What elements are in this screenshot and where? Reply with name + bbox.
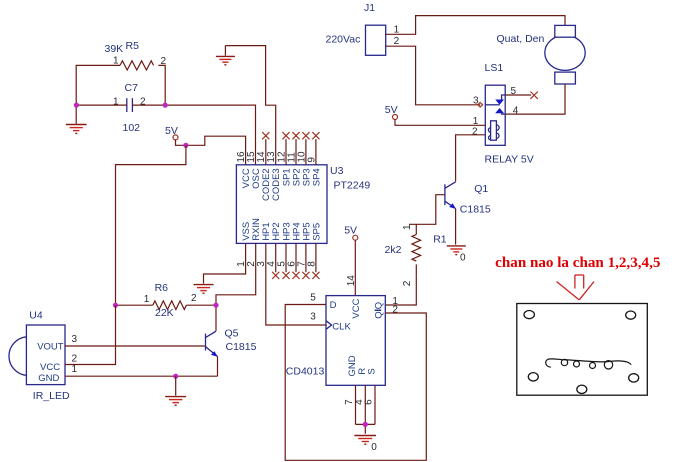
wire Q1 emitter to ground: [455, 209, 457, 245]
svg-text:1: 1: [72, 364, 78, 375]
node relay pin3 open diamond: [478, 103, 483, 108]
svg-text:VCC: VCC: [40, 362, 60, 373]
svg-text:RELAY 5V: RELAY 5V: [485, 153, 534, 165]
svg-text:R6: R6: [155, 282, 169, 294]
svg-text:U3: U3: [330, 165, 344, 177]
svg-text:0: 0: [460, 252, 466, 263]
wire U3 RXIN pin2 to Q5 collector / R6 node: [216, 243, 256, 331]
svg-text:39K: 39K: [105, 43, 124, 55]
svg-text:VOUT: VOUT: [37, 341, 64, 352]
wire J1 pin1 to motor top: [386, 16, 565, 35]
wire 5V branch to R6/U4 VCC: [116, 145, 186, 305]
svg-text:PT2249: PT2249: [334, 180, 371, 192]
red arrow: [557, 275, 595, 300]
svg-text:3: 3: [310, 312, 316, 323]
wire U3 VSS pin1 to ground: [204, 243, 246, 283]
svg-text:5: 5: [310, 292, 316, 303]
wire R1 pin2 to CD4013 pin1: [385, 277, 416, 305]
svg-text:1: 1: [402, 224, 413, 230]
transistor Q1 C1815: [445, 182, 491, 216]
wire U3 HP1 pin3 to CD4013 CLK: [266, 243, 326, 325]
svg-text:2: 2: [72, 354, 78, 365]
wire 5V to U3 VCC pin16: [176, 136, 246, 165]
motor Quat, Den: [497, 25, 586, 84]
svg-text:Q5: Q5: [225, 328, 239, 340]
ground 0 (Q1 emitter): [447, 246, 466, 263]
svg-text:LS1: LS1: [485, 62, 504, 74]
svg-text:5V: 5V: [344, 224, 357, 236]
wire CD4013 D pin5 feedback loop to pin2: [285, 305, 426, 461]
svg-text:4: 4: [513, 106, 519, 117]
ground (R5/C7): [66, 125, 87, 134]
wire relay pin2 to Q1 collector: [456, 135, 485, 182]
svg-text:2: 2: [472, 126, 478, 137]
wire U4 VOUT pin3 to Q5 base: [65, 345, 205, 347]
power 5V (relay pin1): [385, 104, 398, 120]
svg-text:0: 0: [371, 442, 377, 453]
svg-text:14: 14: [346, 275, 357, 287]
node junction dot 5V net: [183, 143, 188, 148]
IC U4 IR_LED body: [9, 310, 78, 403]
svg-text:102: 102: [123, 122, 141, 134]
svg-text:CD4013: CD4013: [286, 365, 325, 377]
wire C7 pin1: [76, 104, 127, 106]
svg-text:S: S: [367, 368, 378, 374]
svg-text:Quat, Den: Quat, Den: [497, 33, 545, 45]
resistor R6: [144, 282, 197, 319]
wire U4 VCC pin2 to 5V net: [65, 305, 116, 364]
ground (U3 VSS): [194, 285, 214, 294]
wire 5V to CD4013 pin14: [354, 240, 356, 295]
wire U4 GND pin1 to Q5 emitter: [65, 375, 218, 377]
svg-text:22K: 22K: [155, 307, 174, 319]
U3 NC bottom pin stubs with X: [275, 243, 277, 272]
wire Q5 emitter to GND wire: [217, 357, 219, 377]
transistor Q5 C1815: [206, 328, 257, 357]
svg-text:VCC: VCC: [351, 298, 362, 318]
svg-text:2: 2: [392, 304, 398, 315]
node junction dot C7 pin2: [163, 103, 168, 108]
svg-text:SP4: SP4: [311, 168, 322, 186]
X mark relay pin5: [530, 92, 537, 99]
svg-text:chan nao la chan 1,2,3,4,5: chan nao la chan 1,2,3,4,5: [495, 255, 660, 271]
wire R6 pin2: [186, 304, 216, 306]
node junction dot left: [74, 103, 79, 108]
power 5V (CD4013 VCC): [344, 224, 358, 240]
svg-text:CLK: CLK: [332, 321, 351, 332]
svg-text:220Vac: 220Vac: [326, 33, 361, 45]
svg-text:J1: J1: [364, 2, 375, 14]
capacitor C7: [113, 82, 146, 134]
connector J1: [326, 2, 400, 55]
wire CD4013 bottom pins 7 4 6 to ground: [356, 385, 376, 434]
svg-text:2: 2: [402, 280, 413, 286]
coil squiggle drawing: [546, 359, 631, 369]
svg-text:C1815: C1815: [226, 341, 257, 353]
svg-text:R1: R1: [433, 234, 447, 246]
node junction dot R6 pin1: [113, 303, 118, 308]
wire R5 pin2 down to C7 pin2 node: [158, 65, 165, 105]
svg-text:2: 2: [394, 36, 400, 47]
svg-text:C7: C7: [125, 82, 139, 94]
svg-text:C1815: C1815: [460, 204, 491, 216]
wire 5V to relay pin1: [395, 120, 485, 126]
U3 NC top pin stubs with X: [265, 139, 267, 165]
svg-text:GND: GND: [38, 373, 59, 384]
wire J1 pin2 to relay pin3: [386, 46, 481, 105]
wire motor bottom to relay pin4: [505, 84, 565, 114]
node junction dot GND net: [173, 374, 178, 379]
wire Q1 base to R1 pin1: [409, 195, 445, 225]
svg-text:SP5: SP5: [311, 223, 322, 241]
node junction dot R6 pin2: [213, 303, 218, 308]
svg-text:3: 3: [72, 334, 78, 345]
svg-text:3: 3: [473, 95, 479, 106]
svg-text:2k2: 2k2: [385, 244, 402, 256]
relay pinout box: [517, 304, 648, 396]
IC CD4013 body: [286, 292, 399, 405]
svg-text:2: 2: [191, 293, 197, 304]
svg-text:1: 1: [144, 294, 150, 305]
resistor R5: [105, 40, 167, 70]
wire CODE3 ground to U3 pin13: [225, 46, 275, 165]
svg-text:IR_LED: IR_LED: [33, 390, 70, 402]
resistor R1 2k2: [385, 224, 447, 286]
relay LS1: [472, 62, 534, 165]
svg-text:Q1: Q1: [474, 183, 488, 195]
svg-text:D: D: [330, 300, 337, 311]
ground 0 (CD4013): [354, 436, 377, 453]
power 5V (U3 VCC): [165, 125, 178, 140]
ground (top, CODE3 net): [216, 46, 235, 65]
wire C7 pin2 to OSC pin15 of U3: [132, 105, 255, 165]
svg-text:R5: R5: [126, 40, 140, 52]
wire relay pin5 to NC X: [505, 94, 531, 96]
svg-text:Q: Q: [373, 311, 384, 318]
op IC U3 PT2249 body: [236, 165, 370, 244]
wire R6 pin1: [116, 304, 153, 306]
svg-text:U4: U4: [29, 310, 43, 322]
node junction dot CD4013 ground: [363, 422, 368, 427]
svg-text:Q: Q: [373, 302, 384, 309]
ground (U4 GND): [165, 376, 186, 405]
wire R5 pin1 to C7 net: [76, 65, 120, 123]
